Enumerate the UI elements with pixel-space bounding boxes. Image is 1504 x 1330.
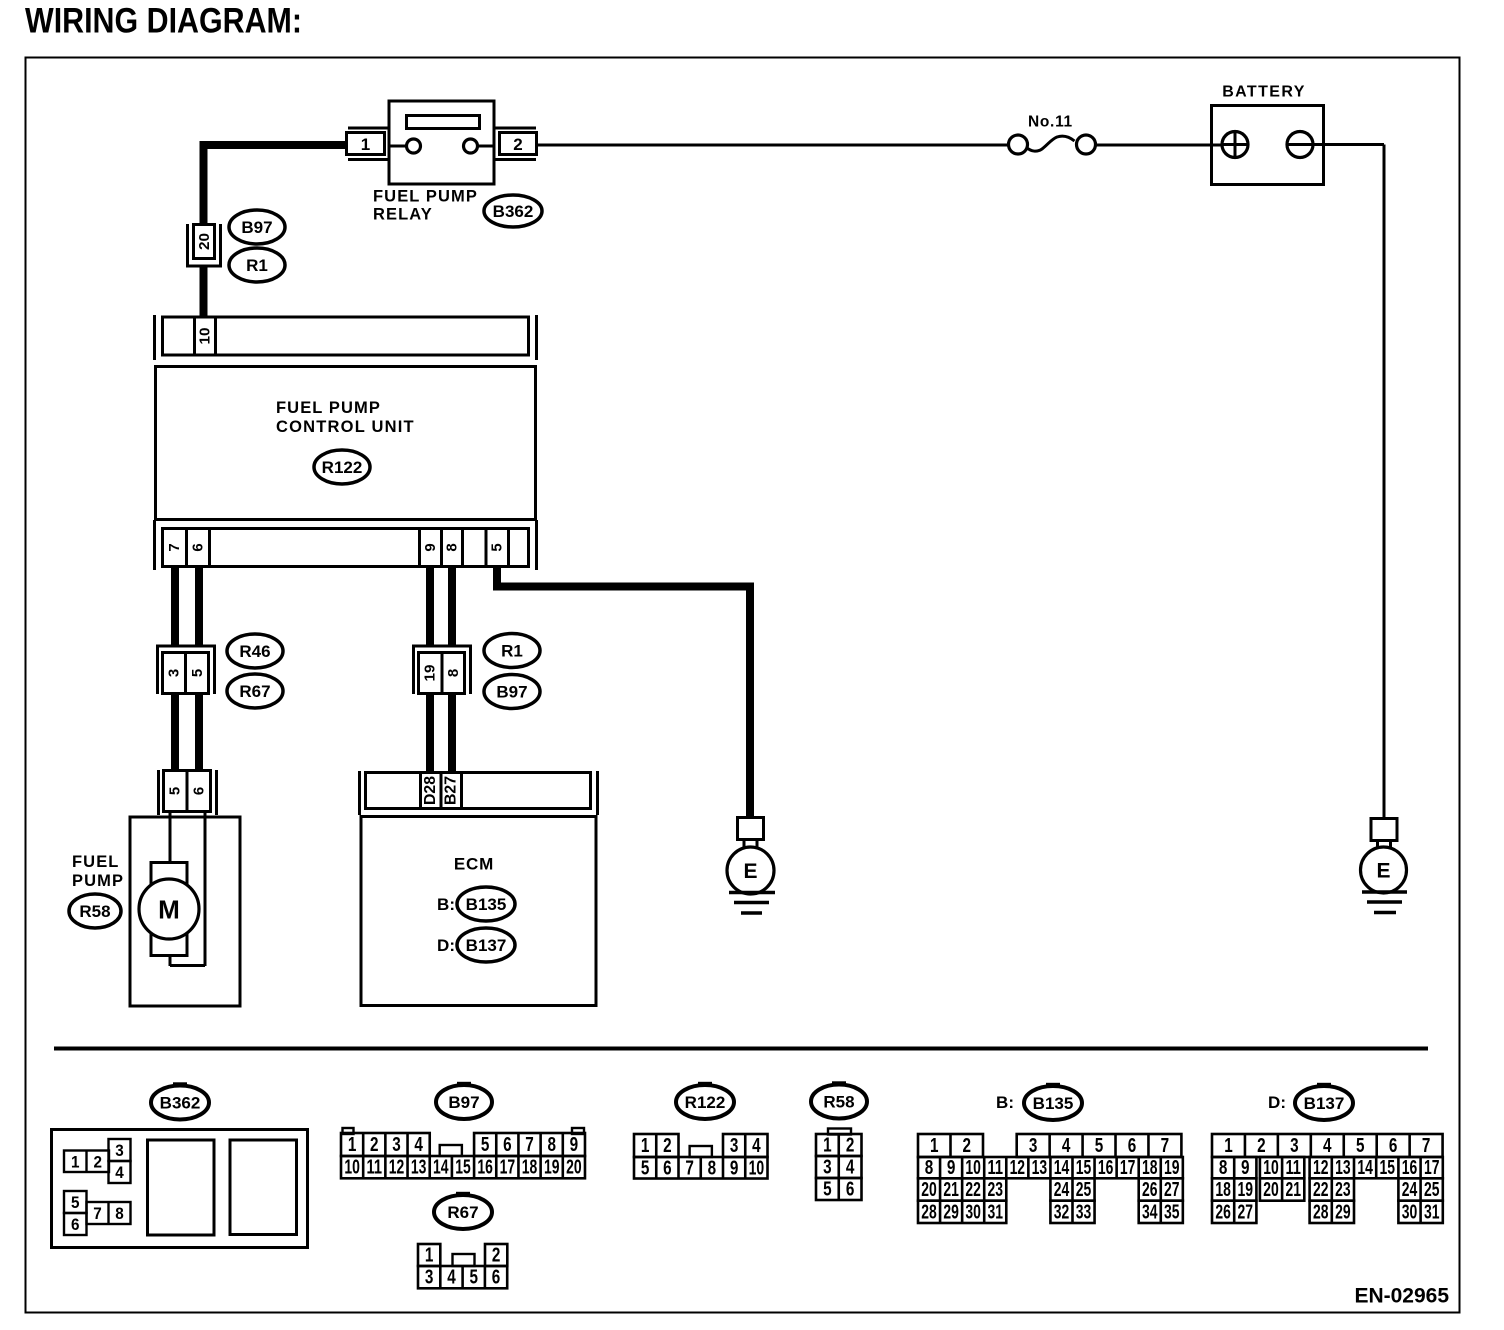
svg-text:23: 23 [1335,1179,1351,1201]
svg-text:30: 30 [965,1201,981,1223]
svg-text:12: 12 [1010,1157,1026,1179]
svg-text:8: 8 [547,1134,556,1156]
svg-text:26: 26 [1215,1201,1231,1223]
svg-text:6: 6 [191,787,208,795]
svg-text:19: 19 [544,1157,560,1179]
svg-text:FUEL: FUEL [72,853,119,871]
svg-text:5: 5 [470,1267,479,1289]
svg-text:RELAY: RELAY [373,206,433,224]
svg-text:17: 17 [500,1157,516,1179]
svg-text:3: 3 [115,1141,124,1160]
svg-text:1: 1 [71,1152,80,1171]
svg-text:9: 9 [422,543,439,551]
svg-text:18: 18 [1142,1157,1158,1179]
svg-text:13: 13 [1335,1157,1351,1179]
svg-text:12: 12 [1313,1157,1329,1179]
svg-text:31: 31 [1424,1201,1440,1223]
svg-text:27: 27 [1164,1179,1180,1201]
svg-text:16: 16 [1098,1157,1114,1179]
svg-text:10: 10 [749,1157,765,1179]
svg-text:5: 5 [641,1157,650,1179]
svg-text:19: 19 [422,665,439,682]
svg-text:5: 5 [489,543,506,551]
svg-text:20: 20 [566,1157,582,1179]
svg-text:19: 19 [1164,1157,1180,1179]
svg-text:11: 11 [367,1157,383,1179]
svg-text:10: 10 [965,1157,981,1179]
svg-text:13: 13 [1032,1157,1048,1179]
svg-text:10: 10 [1263,1157,1279,1179]
svg-text:R58: R58 [79,902,110,921]
svg-text:2: 2 [663,1135,672,1157]
svg-text:1: 1 [1224,1135,1233,1157]
svg-text:1: 1 [823,1135,832,1157]
svg-text:4: 4 [752,1135,761,1157]
svg-text:32: 32 [1054,1201,1070,1223]
svg-text:2: 2 [846,1135,855,1157]
svg-text:B:: B: [996,1093,1014,1112]
svg-text:1: 1 [348,1134,357,1156]
svg-text:E: E [1376,860,1390,883]
svg-text:11: 11 [1285,1157,1301,1179]
svg-text:B362: B362 [493,202,534,221]
svg-text:2: 2 [94,1152,103,1171]
svg-text:20: 20 [921,1179,937,1201]
svg-text:17: 17 [1120,1157,1136,1179]
svg-text:2: 2 [963,1135,972,1157]
svg-text:18: 18 [522,1157,538,1179]
svg-text:34: 34 [1142,1201,1158,1223]
svg-text:33: 33 [1076,1201,1092,1223]
svg-text:23: 23 [987,1179,1003,1201]
svg-text:21: 21 [1285,1179,1301,1201]
svg-text:8: 8 [708,1157,717,1179]
svg-text:No.11: No.11 [1028,114,1073,131]
svg-text:16: 16 [1402,1157,1418,1179]
svg-text:3: 3 [1029,1135,1038,1157]
svg-text:30: 30 [1402,1201,1418,1223]
svg-text:29: 29 [943,1201,959,1223]
svg-text:11: 11 [987,1157,1003,1179]
svg-text:B97: B97 [448,1093,479,1112]
svg-text:B27: B27 [443,776,460,805]
svg-text:8: 8 [925,1157,934,1179]
svg-text:5: 5 [1356,1135,1365,1157]
svg-text:19: 19 [1238,1179,1254,1201]
svg-text:8: 8 [444,543,461,551]
svg-text:4: 4 [414,1134,423,1156]
svg-text:1: 1 [361,135,370,154]
svg-text:2: 2 [1257,1135,1266,1157]
svg-text:14: 14 [1357,1157,1373,1179]
svg-text:B97: B97 [496,683,527,702]
svg-text:6: 6 [663,1157,672,1179]
svg-text:24: 24 [1402,1179,1418,1201]
svg-text:6: 6 [1128,1135,1137,1157]
svg-text:R67: R67 [239,682,270,701]
svg-text:B137: B137 [466,936,507,955]
svg-text:9: 9 [570,1134,579,1156]
svg-text:9: 9 [730,1157,739,1179]
svg-text:6: 6 [190,543,207,551]
svg-text:28: 28 [1313,1201,1329,1223]
svg-text:7: 7 [685,1157,694,1179]
svg-text:24: 24 [1054,1179,1070,1201]
svg-text:15: 15 [1380,1157,1396,1179]
svg-text:9: 9 [1241,1157,1250,1179]
svg-text:6: 6 [846,1179,855,1201]
svg-text:2: 2 [492,1245,501,1267]
svg-text:15: 15 [455,1157,471,1179]
svg-text:5: 5 [167,787,184,795]
svg-text:1: 1 [930,1135,939,1157]
svg-text:14: 14 [1054,1157,1070,1179]
svg-text:35: 35 [1164,1201,1180,1223]
svg-text:R67: R67 [447,1203,478,1222]
svg-text:B:: B: [437,895,455,914]
svg-text:14: 14 [433,1157,449,1179]
svg-text:15: 15 [1076,1157,1092,1179]
svg-text:4: 4 [115,1163,124,1182]
svg-text:BATTERY: BATTERY [1222,84,1306,101]
svg-text:20: 20 [196,233,213,250]
svg-text:25: 25 [1076,1179,1092,1201]
svg-text:27: 27 [1238,1201,1254,1223]
svg-text:B135: B135 [1033,1094,1074,1113]
svg-text:D:: D: [437,936,455,955]
svg-text:D28: D28 [422,776,439,805]
svg-text:3: 3 [1290,1135,1299,1157]
svg-text:7: 7 [525,1134,534,1156]
svg-text:6: 6 [492,1267,501,1289]
svg-text:R122: R122 [322,458,363,477]
svg-text:PUMP: PUMP [72,872,124,890]
svg-text:7: 7 [1161,1135,1170,1157]
svg-text:3: 3 [425,1267,434,1289]
svg-text:8: 8 [1219,1157,1228,1179]
svg-text:WIRING DIAGRAM:: WIRING DIAGRAM: [25,2,302,41]
svg-text:B135: B135 [466,895,507,914]
svg-text:29: 29 [1335,1201,1351,1223]
svg-text:R58: R58 [823,1093,854,1112]
svg-text:16: 16 [477,1157,493,1179]
svg-text:5: 5 [481,1134,490,1156]
svg-text:7: 7 [93,1204,102,1223]
svg-text:M: M [158,895,180,925]
svg-text:28: 28 [921,1201,937,1223]
svg-text:22: 22 [965,1179,981,1201]
svg-text:R122: R122 [685,1093,726,1112]
svg-text:1: 1 [641,1135,650,1157]
svg-text:R1: R1 [246,256,268,275]
svg-text:B97: B97 [241,218,272,237]
svg-text:12: 12 [389,1157,405,1179]
svg-text:R46: R46 [239,642,270,661]
svg-text:22: 22 [1313,1179,1329,1201]
svg-text:6: 6 [71,1215,80,1234]
svg-text:D:: D: [1268,1093,1286,1112]
svg-text:R1: R1 [501,642,523,661]
svg-text:10: 10 [197,328,214,345]
svg-text:EN-02965: EN-02965 [1354,1285,1449,1308]
svg-text:3: 3 [823,1157,832,1179]
svg-text:13: 13 [411,1157,427,1179]
svg-text:4: 4 [1062,1135,1071,1157]
svg-text:6: 6 [1389,1135,1398,1157]
svg-text:1: 1 [425,1245,434,1267]
svg-text:4: 4 [447,1267,456,1289]
svg-text:25: 25 [1424,1179,1440,1201]
svg-text:4: 4 [846,1157,855,1179]
svg-text:5: 5 [189,669,206,677]
svg-text:2: 2 [513,135,522,154]
svg-text:ECM: ECM [454,855,494,874]
svg-text:7: 7 [166,543,183,551]
svg-text:4: 4 [1323,1135,1332,1157]
svg-text:8: 8 [445,669,462,677]
svg-text:2: 2 [370,1134,379,1156]
svg-text:10: 10 [344,1157,360,1179]
svg-text:5: 5 [1095,1135,1104,1157]
svg-text:CONTROL UNIT: CONTROL UNIT [276,418,415,436]
svg-text:6: 6 [503,1134,512,1156]
svg-text:3: 3 [730,1135,739,1157]
svg-text:8: 8 [115,1204,124,1223]
svg-text:FUEL PUMP: FUEL PUMP [373,188,478,206]
svg-text:7: 7 [1422,1135,1431,1157]
svg-text:21: 21 [943,1179,959,1201]
svg-text:FUEL PUMP: FUEL PUMP [276,399,381,417]
svg-text:26: 26 [1142,1179,1158,1201]
svg-text:9: 9 [947,1157,956,1179]
svg-text:18: 18 [1215,1179,1231,1201]
svg-text:17: 17 [1424,1157,1440,1179]
svg-text:5: 5 [71,1193,80,1212]
svg-text:B362: B362 [160,1094,201,1113]
svg-text:3: 3 [166,669,183,677]
svg-text:5: 5 [823,1179,832,1201]
svg-text:B137: B137 [1304,1094,1345,1113]
svg-text:3: 3 [392,1134,401,1156]
svg-text:31: 31 [987,1201,1003,1223]
svg-text:E: E [743,860,757,883]
svg-text:20: 20 [1263,1179,1279,1201]
